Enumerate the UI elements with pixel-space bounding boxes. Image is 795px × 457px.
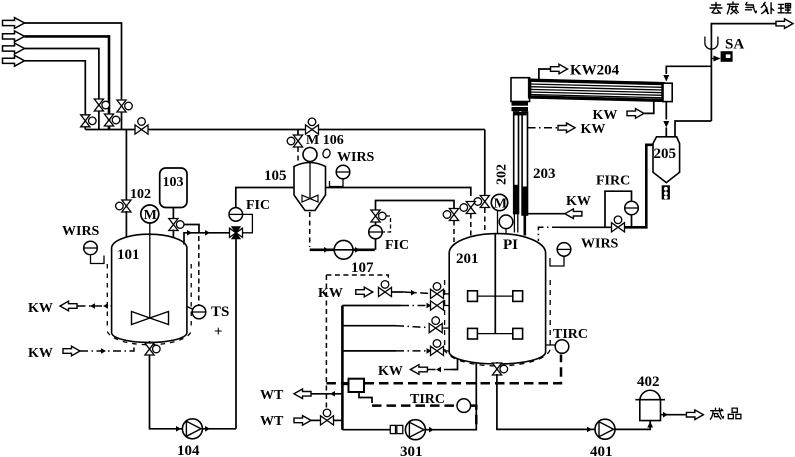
valve 105 feed <box>287 135 302 147</box>
wire valve to 101 dome <box>125 211 127 237</box>
valve 201 feed <box>474 196 489 208</box>
wire WT1 <box>311 393 342 395</box>
control valve 105 loop <box>371 210 386 222</box>
wire inlet line 4 <box>25 61 86 130</box>
WIRS instrument 105 <box>336 165 350 179</box>
wire 402 outlet <box>661 414 686 416</box>
wire 201 bottom to pump 401 <box>497 374 595 429</box>
valve on inlet 2 <box>104 114 119 126</box>
svg-text:FIRC: FIRC <box>596 174 630 189</box>
control valve WT2 <box>321 409 334 425</box>
svg-text:402: 402 <box>637 374 660 390</box>
coupling <box>390 425 395 433</box>
svg-text:KW204: KW204 <box>570 63 620 79</box>
svg-text:M: M <box>144 208 157 223</box>
vessel 205 <box>653 137 680 183</box>
wire heavy dashed TIRC loop upper <box>326 355 561 384</box>
wire dashed to vessel 105 top <box>297 147 299 162</box>
arrow product <box>686 410 703 420</box>
FIC flow instrument <box>229 208 243 222</box>
char qi <box>746 2 757 13</box>
pump 106 circulating <box>334 240 353 259</box>
WIRS instrument 201 <box>557 243 571 257</box>
wire feed header <box>85 129 485 131</box>
column 203 tube 2 <box>522 112 528 236</box>
wire pump 301 discharge <box>426 362 476 430</box>
arrow WT2 in <box>294 416 311 426</box>
flow arrow <box>205 230 210 236</box>
wire KW 201 out dashdot <box>428 369 453 371</box>
valve 103 outlet <box>169 219 184 231</box>
svg-text:KW: KW <box>593 108 618 123</box>
wire FIRC loop <box>605 191 632 227</box>
wire 103 to valve <box>172 208 174 220</box>
svg-text:WIRS: WIRS <box>62 224 100 239</box>
control valve on header <box>135 118 148 134</box>
flow arrow up into 402 <box>647 422 653 428</box>
inlet arrow 2 <box>3 31 25 42</box>
control valve FIRC <box>612 216 625 232</box>
wire WIRS 105 tail <box>330 179 344 187</box>
motor M 102 <box>141 205 159 223</box>
SA analyzer box <box>711 51 732 62</box>
flow arrow down <box>663 75 669 82</box>
svg-text:KW: KW <box>566 194 591 209</box>
wire PI stub <box>505 229 507 234</box>
pump 104 <box>182 419 202 439</box>
motor M 106 <box>303 148 317 162</box>
flow arrow <box>176 426 181 432</box>
FIRC instrument <box>625 201 639 215</box>
inlet arrow 4 <box>3 55 25 66</box>
wire 103 branch to FIC line <box>184 225 199 233</box>
svg-text:FIC: FIC <box>385 238 409 253</box>
wire TS to reactor wall <box>187 307 194 310</box>
wire WT2 valve to riser <box>333 419 342 421</box>
label product <box>710 408 741 419</box>
svg-text:TIRC: TIRC <box>553 327 588 342</box>
wire pump 401 to filter 402 <box>616 421 651 430</box>
instrument box 103 <box>160 168 187 208</box>
wire WT2 <box>311 419 321 421</box>
char cheng <box>710 408 723 419</box>
agitator shaft 201 <box>494 234 496 334</box>
valve 101 feed <box>116 200 131 212</box>
flow arrow <box>90 303 95 309</box>
wire KW out dashdot <box>78 305 112 307</box>
PI instrument on dome <box>499 215 513 229</box>
wire TS dashed signal <box>198 236 200 305</box>
impeller row 2 <box>468 328 523 339</box>
svg-text:KW: KW <box>28 301 53 316</box>
motor M 202 <box>491 194 507 211</box>
reactor 101 vessel <box>107 234 191 345</box>
arrow KW204 <box>551 64 568 74</box>
condenser 204 shell <box>530 80 663 100</box>
wire KW column inlet <box>528 213 565 215</box>
valve on inlet 4 <box>81 115 96 127</box>
arrow KW in <box>63 346 80 356</box>
arrow KW column <box>565 209 582 219</box>
wire jacket drain hook <box>452 358 458 370</box>
TIRC2 instrument <box>457 399 471 413</box>
svg-text:WIRS: WIRS <box>337 150 375 165</box>
wire WIRS tail <box>91 255 105 264</box>
wire reflux line <box>560 226 612 228</box>
inlet arrow 3 <box>3 43 25 54</box>
column 203 tube 1 <box>513 112 519 233</box>
arrow to waste gas <box>776 19 793 29</box>
FIC control cross valve <box>230 227 243 239</box>
svg-text:401: 401 <box>590 444 613 457</box>
agitator impeller 101 <box>132 312 169 325</box>
wire waste gas header <box>711 24 779 121</box>
char chu <box>761 2 773 13</box>
svg-text:105: 105 <box>264 168 287 184</box>
wire row2 <box>342 305 401 307</box>
wire pump104 riser <box>235 239 237 429</box>
svg-text:102: 102 <box>130 187 151 202</box>
wire dashed KW vent <box>528 127 558 129</box>
wire 101 bottom to pump 104 <box>150 355 237 429</box>
arrow WT1 out <box>294 389 311 399</box>
wire heavy dashed lower TIRC <box>372 404 456 407</box>
flange stack <box>512 102 529 116</box>
arrow KW out <box>60 301 77 311</box>
vessel 105 <box>294 163 326 211</box>
valve feed a to 201 <box>443 209 458 221</box>
wire riser to FIC2 <box>375 239 377 250</box>
flow arrow <box>324 247 329 253</box>
svg-text:TS: TS <box>211 304 229 320</box>
condenser 204 left header <box>511 78 530 102</box>
wire condenser to 205 <box>665 102 667 120</box>
flow arrow <box>187 230 192 236</box>
svg-text:103: 103 <box>163 175 184 190</box>
valve on 105 outlet line to 201 <box>460 202 475 214</box>
arrow KW 201 out <box>410 365 427 375</box>
svg-text:202: 202 <box>495 164 510 185</box>
SA flame arrester <box>705 37 718 50</box>
svg-text:WT: WT <box>260 388 284 403</box>
wire heavy dashed TIRC2 to pipe <box>471 406 476 428</box>
reactor 201 vessel <box>445 234 551 366</box>
wire shaft M to dome <box>497 211 499 235</box>
wire dashed to 201 dome <box>484 208 486 232</box>
wire box hook down <box>359 392 372 403</box>
wire KW in dashdot <box>80 343 134 351</box>
wire valve to 101 dome <box>172 230 174 239</box>
wire 105 cone dashed drop <box>309 212 311 247</box>
control valve KW row1 <box>379 281 392 297</box>
steam trap under 205 <box>662 185 670 199</box>
wire KW204 inlet <box>539 69 551 81</box>
wire 107 dashed boundary left <box>325 275 327 410</box>
char pin <box>728 408 741 419</box>
wire inlet line 2 (bold) <box>25 36 110 129</box>
wire FIC2 to control valve <box>375 222 377 226</box>
arrow KW out <box>627 109 644 119</box>
agitator shaft 101 <box>149 223 151 318</box>
svg-text:M 106: M 106 <box>306 133 344 148</box>
valve M106 branch on header <box>306 118 319 134</box>
valve on inlet 1 <box>117 100 132 112</box>
svg-text:301: 301 <box>400 444 423 457</box>
TIRC instrument at 201 <box>555 340 569 354</box>
flow arrow <box>101 348 106 354</box>
svg-text:TIRC: TIRC <box>410 392 445 407</box>
wire FIC signal loop <box>243 214 253 232</box>
svg-text:SA: SA <box>725 37 744 53</box>
seal gland symbol <box>322 148 331 159</box>
wire dashed to 201 dome <box>470 214 472 237</box>
svg-text:WIRS: WIRS <box>581 237 619 252</box>
wire KW row1 to reactor valve <box>392 291 404 293</box>
wire branch to condenser return <box>666 66 711 74</box>
svg-text:M: M <box>494 197 507 212</box>
wire 107 dashed boundary top <box>326 275 388 282</box>
valve 201 jacket row3 <box>429 317 449 333</box>
svg-text:WT: WT <box>260 414 284 429</box>
svg-text:205: 205 <box>654 146 677 162</box>
svg-text:201: 201 <box>456 251 479 267</box>
wire FIC riser to line y187 <box>236 188 471 208</box>
filter 402 <box>635 390 665 420</box>
wire inlet line 3 <box>25 49 99 130</box>
wire branch down to reactor 101 <box>125 130 127 202</box>
condenser 204 right header <box>663 83 672 101</box>
svg-text:104: 104 <box>177 443 200 457</box>
valve 201 jacket row2 <box>431 301 450 310</box>
svg-text:KW: KW <box>581 122 606 137</box>
svg-text:203: 203 <box>533 166 556 182</box>
char li <box>778 4 791 13</box>
flow arrow <box>205 426 210 432</box>
wire circuit riser <box>341 306 344 430</box>
wire valve up and right to valve at 454 <box>376 201 455 211</box>
WIRS instrument 101 <box>84 241 98 255</box>
valve 201 jacket row1 <box>431 283 450 299</box>
svg-text:KW: KW <box>318 286 343 301</box>
impeller row 1 <box>468 291 523 302</box>
FIC2 instrument <box>369 225 383 239</box>
wire WIRS 201 tail <box>550 256 564 266</box>
wire FIC2 signal dashed loop <box>382 216 390 232</box>
wire TIRC stub to wall <box>546 344 555 346</box>
wire branch down to vessel 105 <box>297 130 299 137</box>
wire bottom line to pump 301 <box>342 429 390 431</box>
flow arrow down <box>663 121 669 128</box>
valve 201 jacket row4 <box>431 340 450 356</box>
flow arrow <box>429 427 434 433</box>
valve 101 bottom outlet <box>145 341 160 355</box>
svg-text:PI: PI <box>503 237 518 253</box>
wire reflux dashdot to dome <box>538 227 560 241</box>
wire 101 dome to FIC valve <box>184 233 230 245</box>
pump 301 <box>405 420 425 440</box>
char qu <box>710 3 722 14</box>
svg-text:101: 101 <box>117 247 140 263</box>
wire row4 <box>342 350 396 352</box>
flow arrow <box>663 412 668 418</box>
svg-text:+: + <box>214 324 223 340</box>
inlet arrow 1 <box>3 18 25 29</box>
valve on inlet 3 <box>94 99 109 111</box>
wire main feed drop to reactor 201 <box>484 130 486 197</box>
svg-text:107: 107 <box>351 260 374 276</box>
transducer box <box>349 379 365 392</box>
wire 105 pump line (bold) <box>310 249 375 252</box>
arrow KW row1 <box>356 287 373 297</box>
wire box to riser <box>342 383 348 385</box>
TS instrument <box>192 305 206 319</box>
flow arrow <box>587 427 592 433</box>
svg-text:KW: KW <box>378 364 403 379</box>
agitator impeller 105 <box>302 195 318 202</box>
svg-text:FIC: FIC <box>246 198 270 213</box>
valve 201 bottom outlet <box>492 362 507 375</box>
wire KW shell outlet <box>644 100 654 113</box>
wire row3 <box>342 325 396 327</box>
wire SA line to 205 <box>675 121 711 137</box>
svg-text:KW: KW <box>28 346 53 361</box>
flow arrow <box>355 247 360 253</box>
wire 205 outlet bold <box>625 145 654 228</box>
wire inlet line 1 <box>25 23 122 130</box>
wire 205 nozzle left <box>665 128 667 138</box>
pump 401 <box>595 419 615 439</box>
label waste gas treatment <box>710 2 791 14</box>
agitator shaft 105 <box>309 162 311 199</box>
wire dashed to 201 dome <box>453 221 455 243</box>
char fei <box>727 2 738 14</box>
arrow KW vent <box>558 123 575 133</box>
